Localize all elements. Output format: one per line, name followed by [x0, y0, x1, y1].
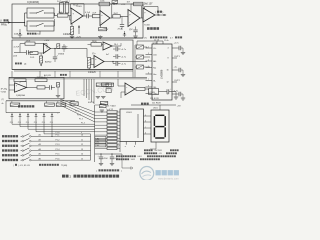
svg-text:+CD: +CD	[121, 4, 126, 6]
component box C943	[149, 89, 159, 95]
svg-text:P1.4: P1.4	[56, 149, 60, 151]
svg-text:A1: A1	[39, 134, 41, 137]
wire and capacitor C9 right of C943	[159, 89, 179, 100]
wire fan diagonals	[60, 99, 95, 122]
svg-text:6: 6	[117, 127, 118, 129]
svg-text:P1.3: P1.3	[79, 118, 83, 120]
svg-text:LM3886: LM3886	[160, 69, 164, 79]
note row under A3	[144, 36, 182, 39]
component box TES	[35, 77, 47, 82]
resistor R7 24k5	[30, 52, 43, 60]
svg-text:40226: 40226	[88, 102, 95, 104]
svg-text:P1.1: P1.1	[75, 110, 79, 112]
input key boxes CH rows	[95, 137, 106, 147]
zener diode row ZD1-ZD6	[11, 113, 54, 120]
capacitor C7 on A5 output	[113, 61, 126, 65]
power label	[96, 169, 122, 172]
double rail A below filter box	[12, 69, 133, 71]
capacitor C20 in box2 mid	[62, 44, 68, 52]
IC U2 inner divider	[137, 114, 139, 138]
svg-text:1: 1	[117, 110, 118, 112]
svg-text:12: 12	[81, 144, 83, 146]
svg-text:8: 8	[117, 134, 118, 136]
capacitor C2 24u	[65, 1, 70, 13]
rail between boxes	[12, 37, 143, 39]
svg-text:P1.1: P1.1	[56, 135, 60, 137]
capacitor C3 coupling	[85, 12, 93, 18]
svg-text:6: 6	[148, 72, 149, 74]
trimmer bus vertical	[135, 41, 137, 77]
svg-text:+4.7u: +4.7u	[121, 49, 126, 51]
svg-text:SB-: SB-	[153, 87, 157, 89]
capacitor C10 IC top right	[174, 43, 186, 55]
svg-text:LD-: LD-	[153, 48, 156, 50]
svg-text:4u7: 4u7	[106, 54, 109, 56]
resistor R17 at A7 output	[135, 87, 149, 90]
analog switch K2	[27, 21, 54, 31]
note line under switch rows	[13, 164, 67, 167]
svg-text:12: 12	[166, 82, 168, 84]
svg-text:P1.6: P1.6	[56, 158, 60, 160]
label 14022B	[63, 34, 71, 36]
resistor R9 vertical at node	[57, 44, 60, 49]
label 140226 under A5	[88, 72, 96, 74]
svg-text:): K1, K2~K5: ): K1, K2~K5	[19, 165, 31, 167]
op-amp A8 upper small	[103, 42, 112, 50]
display label L801	[153, 108, 158, 110]
svg-text:13: 13	[81, 149, 83, 151]
IC U2 left bus continuation	[119, 142, 121, 153]
svg-text:TL061: TL061	[76, 6, 83, 8]
svg-text:140226: 140226	[88, 72, 96, 74]
svg-text:+4.7u: +4.7u	[121, 64, 126, 66]
switch rows with keys K1-K6	[2, 134, 91, 162]
wire A1 output	[83, 15, 87, 17]
svg-text:OUT1: OUT1	[174, 56, 181, 58]
svg-text:DB 7 3A-V: DB 7 3A-V	[106, 104, 116, 107]
wire A6 feedback	[20, 82, 27, 88]
svg-text:AGND: AGND	[45, 60, 52, 63]
svg-text:89C2051: 89C2051	[155, 150, 162, 152]
resistor R13 on A6 output	[37, 86, 49, 89]
svg-text:4.7uF: 4.7uF	[85, 12, 91, 14]
enclosure box preamp lower	[9, 77, 64, 98]
wire power into stack	[95, 104, 99, 106]
label row above A2b	[113, 1, 131, 6]
label inside switch box lower	[14, 33, 36, 36]
label S6-2k above A1	[73, 5, 79, 7]
feedback resistor of A2b	[131, 2, 143, 18]
wire A2 output	[110, 16, 112, 18]
IC U1 top pins	[137, 39, 163, 44]
resistor R24 between A2 and A2b	[113, 13, 128, 18]
svg-text:C(D4066): C(D4066)	[27, 0, 39, 4]
svg-text:1/4W: 1/4W	[131, 159, 136, 161]
power rail bottom	[95, 153, 122, 154]
input terminal label	[0, 19, 8, 26]
svg-text:14022B: 14022B	[63, 34, 71, 36]
svg-text:8: 8	[148, 85, 149, 87]
watermark logo circle	[140, 167, 154, 181]
op-amp A7 comparator	[125, 83, 135, 95]
capacitor C8 in box3	[50, 85, 56, 89]
watermark url	[158, 177, 179, 180]
svg-text:4: 4	[148, 59, 149, 61]
IC U2 label	[126, 112, 133, 114]
resistor R8 below A4	[40, 53, 43, 66]
zener labels	[10, 122, 54, 124]
svg-text:12 13: 12 13	[153, 42, 158, 44]
IC U2 display driver	[120, 109, 144, 142]
resistor R1 5k1	[57, 12, 68, 17]
op-amp A4	[43, 40, 50, 54]
feedback wire of A3	[145, 7, 159, 16]
resistor R10 hatch left of A5	[88, 58, 91, 70]
wire rail to A7	[118, 79, 125, 98]
svg-text:4: 4	[168, 48, 169, 50]
svg-text:CH4: CH4	[96, 145, 100, 147]
svg-text:A6: A6	[39, 157, 41, 160]
feedback wire of A4	[20, 44, 47, 53]
svg-text:1F-33µ: 1F-33µ	[1, 88, 8, 90]
op-amp A2	[100, 11, 110, 26]
output arrow of A3	[155, 14, 167, 16]
IC U1 right pins	[166, 48, 177, 96]
svg-text:1(4B)36A: 1(4B)36A	[16, 94, 25, 97]
rail top of monitor section	[2, 99, 76, 105]
svg-text:T1(4B): T1(4B)	[61, 165, 67, 167]
svg-text:P1.3: P1.3	[56, 144, 60, 146]
svg-text:(S): (S)	[37, 34, 40, 36]
svg-text:3: 3	[117, 117, 118, 119]
capacitor C6 at A4 output	[51, 48, 63, 62]
wire power to driver	[122, 154, 132, 170]
wire A5 output to IC	[104, 61, 147, 62]
rail B lower line	[9, 78, 147, 80]
capacitor C14 0.1u	[110, 154, 118, 166]
svg-text:2: 2	[148, 46, 149, 48]
svg-text:7: 7	[117, 130, 118, 132]
svg-text:P1.4: P1.4	[81, 122, 85, 124]
capacitor C16 stack middle	[113, 54, 126, 58]
svg-text:11: 11	[81, 139, 83, 141]
wire bundle verticals	[84, 79, 94, 104]
label smudge box2 left	[15, 63, 27, 66]
IC U2 bottom pins	[125, 142, 136, 149]
svg-text:15: 15	[81, 158, 83, 160]
svg-text:+4.7u: +4.7u	[173, 90, 178, 92]
wires driver to display	[144, 116, 152, 134]
svg-text:A2: A2	[39, 138, 41, 141]
svg-text:11.4u: 11.4u	[164, 40, 169, 42]
svg-text:TL084: TL084	[144, 24, 151, 26]
resistor R15 hatch pair	[96, 83, 109, 99]
IC U1 part label	[160, 69, 164, 79]
svg-text:A(1):R5: A(1):R5	[44, 74, 52, 77]
resistor R16 hatch pair	[101, 83, 114, 99]
resistor R2 below A1	[70, 24, 74, 38]
watermark diagonal center	[75, 86, 114, 98]
wire into A5	[91, 59, 94, 65]
trimmer RP3	[135, 55, 150, 59]
op-amp A3 TL084 output stage	[143, 8, 155, 26]
svg-text:(7): (7)	[2, 99, 5, 101]
label 11.4u above IC	[153, 40, 169, 45]
label 111 R 28	[150, 98, 159, 100]
resistor R22 top of pack	[100, 103, 107, 108]
svg-text:5: 5	[117, 124, 118, 126]
svg-text:AB-: AB-	[153, 60, 157, 63]
svg-text:PR0u: PR0u	[1, 24, 8, 27]
+12V feed wire at A1	[76, 25, 82, 38]
output net label	[156, 11, 164, 14]
svg-text:9: 9	[148, 92, 149, 94]
wire switch K2 bottom node	[37, 31, 41, 36]
resistor R23 right hanging	[70, 101, 78, 105]
resistor pack RN1 rows	[95, 110, 120, 149]
svg-text:28(4): 28(4)	[92, 41, 97, 43]
stack bus vertical	[94, 105, 96, 162]
svg-text:+4.1u: +4.1u	[62, 46, 68, 48]
wire bends from zeners	[12, 120, 95, 137]
caption figure title	[62, 175, 119, 179]
monitor label text	[18, 105, 34, 107]
svg-text:7: 7	[148, 79, 149, 81]
resistor R14 right in box3	[56, 83, 60, 98]
wire A4 to A5	[58, 49, 87, 58]
svg-text:IN-: IN-	[153, 80, 156, 82]
svg-text:29uF: 29uF	[118, 29, 123, 31]
svg-text:4x: 4x	[2, 103, 4, 105]
svg-text:2: 2	[117, 114, 118, 116]
input label 1F-33uF	[1, 88, 8, 93]
label 5k0 107 top right	[144, 2, 153, 5]
wire R1 to A1	[68, 16, 71, 20]
diode D1 to ground near input	[18, 29, 22, 38]
feedback rail wire above A1	[62, 2, 85, 16]
label under IC	[141, 103, 161, 105]
note text block right	[116, 149, 179, 161]
display bottom wire	[150, 142, 156, 149]
svg-text:4x4B: 4x4B	[14, 34, 19, 36]
svg-text:14: 14	[81, 154, 83, 156]
svg-text:Y(T)S: Y(T)S	[1, 92, 7, 94]
component grid blocks before A7	[106, 83, 111, 93]
row collector bus	[90, 134, 92, 160]
svg-text:16: 16	[166, 70, 168, 72]
svg-text:4: 4	[117, 120, 118, 122]
capacitor C18 below R24	[118, 16, 125, 30]
svg-text:(1V): (1V)	[13, 56, 17, 58]
display top rail +5V	[131, 105, 181, 110]
capacitor C1 24u	[57, 1, 63, 13]
rail stubs verticals	[12, 70, 133, 78]
resistor R4 100k feedback of A2	[99, 1, 110, 6]
wire A6 output chain	[27, 87, 38, 89]
diode D2 below A2b	[123, 31, 126, 37]
7-segment digit showing 8	[154, 115, 165, 138]
svg-text:P1.2: P1.2	[56, 139, 60, 141]
svg-text:+4.7u: +4.7u	[174, 43, 179, 45]
svg-text:+4.7u: +4.7u	[121, 57, 126, 59]
op-amp A6	[15, 83, 27, 92]
op-amp A1 TL061	[71, 6, 83, 24]
trimmer RP4	[135, 65, 150, 69]
svg-text:+1u: +1u	[174, 67, 177, 69]
label +4.1u in box2	[62, 46, 68, 48]
watermark site name	[156, 170, 179, 175]
svg-text:OUT2: OUT2	[174, 80, 181, 82]
AGND label	[45, 60, 52, 63]
label under A6	[16, 94, 25, 97]
double rail B bus	[9, 76, 147, 78]
svg-text:A5: A5	[39, 153, 41, 156]
resistor R20 hanging	[45, 101, 55, 107]
svg-text:10: 10	[117, 140, 119, 142]
svg-text:P1.2: P1.2	[77, 114, 81, 116]
wires into A6 inputs	[9, 85, 15, 90]
svg-text:+5V: +5V	[177, 105, 181, 107]
label 40226 mid	[88, 102, 95, 104]
svg-text:GND: GND	[153, 93, 158, 95]
trimmer RP2	[135, 45, 147, 49]
capacitor C15 stack upper	[113, 47, 126, 51]
svg-text:111 R/28: 111 R/28	[152, 103, 161, 105]
svg-text:3: 3	[148, 53, 149, 55]
resistor R11 feedback of A8	[88, 41, 104, 46]
resistor R5 below A2	[98, 26, 109, 39]
svg-text:L3001: L3001	[126, 112, 133, 114]
display module DS1 body	[151, 110, 169, 142]
wire input to switches	[0, 13, 27, 26]
svg-text:(7): (7)	[144, 38, 147, 40]
wire A8 output	[112, 43, 121, 46]
op-amp A2b	[128, 10, 140, 27]
analog switch K1	[27, 8, 54, 18]
resistor R21 hanging	[56, 101, 66, 114]
svg-text:28.4: 28.4	[114, 44, 118, 46]
svg-text:P1.5: P1.5	[56, 154, 60, 156]
svg-text:4.7uF: 4.7uF	[14, 47, 20, 49]
svg-text:10: 10	[81, 135, 83, 137]
svg-text:A3: A3	[39, 143, 41, 146]
capacitor C13 47u	[98, 154, 109, 166]
wire A2b output to A3	[140, 13, 143, 19]
capacitor C11 IC mid right	[174, 67, 186, 77]
net OUT2 label	[174, 80, 181, 82]
label A1-R5 between rails	[44, 74, 67, 77]
svg-text:8: 8	[168, 58, 169, 60]
svg-text:+12V: +12V	[44, 40, 50, 42]
svg-text:(4): (4)	[24, 63, 27, 65]
trimmer pot RP1 top	[112, 1, 118, 4]
svg-text:12: 12	[117, 147, 119, 149]
net labels P1.x near fan	[75, 110, 85, 124]
IC U1 left pins	[146, 46, 159, 95]
svg-text:L801: L801	[138, 156, 142, 158]
rail two of monitor section	[6, 101, 60, 113]
op-amp A5	[92, 53, 104, 67]
label DB7 block	[106, 104, 116, 111]
svg-text:10: 10	[166, 94, 168, 96]
svg-text:11: 11	[117, 143, 119, 145]
enclosure box for filter stage	[12, 40, 133, 70]
resistor R18 vertical mid	[100, 102, 108, 113]
feedback wire of A2	[100, 4, 112, 18]
wire relay to R1	[52, 13, 58, 26]
IC U1 LM3886 body	[152, 44, 172, 100]
svg-text:5k0 107: 5k0 107	[144, 2, 153, 5]
segment pin labels	[145, 114, 146, 134]
svg-text:A4: A4	[39, 148, 41, 151]
label CD4066 above relay block	[27, 0, 39, 4]
svg-text:LD0: LD0	[153, 54, 157, 56]
svg-text:29466: 29466	[58, 54, 65, 56]
resistor R3 5k1	[93, 12, 101, 17]
capacitor C5 4u7 input	[13, 47, 33, 58]
resistor R6 28k5 feedback of A4	[25, 40, 35, 45]
rail A lower line	[14, 70, 133, 72]
net OUT1 label	[174, 56, 181, 58]
signal cable label	[147, 27, 159, 30]
svg-text:TES 36.8: TES 36.8	[37, 77, 46, 79]
svg-text:9: 9	[117, 137, 118, 139]
resistor R19 left hanging	[10, 101, 20, 107]
capacitor C12 IC bottom right	[173, 90, 185, 100]
svg-text:www.jiexiantu.com: www.jiexiantu.com	[158, 177, 179, 180]
resistor R12 feedback of A6	[14, 79, 26, 82]
svg-text:12 13: 12 13	[154, 39, 160, 41]
svg-text:+12V: +12V	[104, 29, 109, 31]
label 4u7 near A5 out	[106, 54, 109, 56]
capacitor C19 below A2b	[129, 27, 138, 39]
enclosure box for input analog stage	[12, 4, 143, 38]
